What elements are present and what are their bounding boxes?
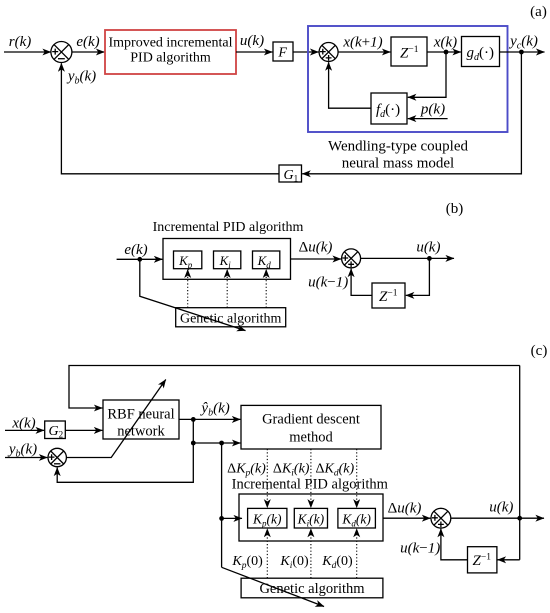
svg-text:Gradient descent: Gradient descent [262, 412, 360, 428]
wire yb-hat feedback to S4 [57, 443, 193, 482]
block Kp (b) [174, 251, 202, 270]
svg-text:u(k): u(k) [416, 240, 440, 256]
svg-text:x(k): x(k) [11, 416, 35, 432]
block Genetic algorithm (b) [176, 308, 286, 327]
svg-text:fd(·): fd(·) [376, 102, 400, 120]
wire diagonal to GA (c) [222, 567, 324, 606]
dotted wire gradient to Kp(k) [266, 449, 268, 508]
summer S1 [51, 42, 72, 63]
svg-text:Ki(k): Ki(k) [297, 512, 325, 529]
svg-text:e(k): e(k) [76, 34, 99, 50]
block Kd (b) [253, 251, 280, 270]
svg-text:Incremental PID algorithm: Incremental PID algorithm [232, 477, 389, 493]
wire p(k) to fd lower [408, 118, 448, 120]
block G1 [279, 165, 302, 184]
junction PID input (c) [219, 516, 224, 521]
junction u(k) (b) [427, 256, 432, 261]
block G2 [45, 421, 66, 440]
junction e(k) (b) [137, 257, 142, 262]
svg-text:Δu(k): Δu(k) [388, 501, 422, 517]
dotted wire GA to Kd (b) [265, 269, 267, 307]
block fd [371, 93, 407, 124]
wire fd to S2 [329, 62, 371, 108]
block Gradient descent method [241, 405, 381, 449]
wire branch down to PID input (c) [221, 443, 223, 567]
svg-text:Improved incremental: Improved incremental [108, 36, 232, 51]
junction lower branch [191, 441, 196, 446]
wire yc down to G1 [302, 52, 521, 174]
svg-text:p(k): p(k) [420, 102, 445, 118]
wire F to summer S2 [293, 51, 319, 53]
svg-text:u(k): u(k) [240, 33, 264, 49]
block Ki(k) [294, 508, 327, 528]
wire into PID box (c) [222, 517, 242, 519]
wire gd to output [500, 51, 545, 53]
svg-text:u(k−1): u(k−1) [308, 275, 348, 291]
svg-text:F: F [277, 46, 287, 61]
svg-text:r(k): r(k) [9, 34, 32, 50]
svg-text:Kd(0): Kd(0) [321, 554, 353, 571]
svg-text:e(k): e(k) [124, 242, 147, 258]
svg-text:Kp(0): Kp(0) [231, 554, 263, 571]
svg-text:u(k−1): u(k−1) [400, 541, 440, 557]
dotted wire gradient to Ki(k) [310, 449, 312, 508]
wire PID box to summer S3 [291, 258, 342, 260]
svg-text:gd(·): gd(·) [467, 45, 495, 63]
svg-text:Wendling-type coupled: Wendling-type coupled [328, 139, 469, 155]
dotted wire GA to Kp(k) (c) [266, 529, 268, 579]
box incremental PID (b) [163, 239, 291, 280]
wire r(k) to summer S1 [4, 51, 51, 53]
block RBF neural network [103, 400, 179, 440]
junction branch to PID [219, 441, 224, 446]
dotted wire GA to Kd(k) (c) [356, 529, 358, 579]
svg-text:method: method [289, 430, 333, 446]
dotted wire GA to Kp (b) [187, 269, 189, 307]
svg-text:(a): (a) [530, 4, 547, 20]
wire u(k) to Z1b [406, 258, 430, 295]
junction yb-hat [191, 417, 196, 422]
block Genetic algorithm (c) [241, 578, 383, 598]
wire S4 error diagonal through RBF [66, 380, 165, 458]
svg-text:u(k): u(k) [489, 500, 513, 516]
svg-text:Δu(k): Δu(k) [299, 240, 333, 256]
wire x(k) to G2 [5, 429, 44, 431]
svg-text:x(k): x(k) [433, 35, 457, 51]
svg-text:neural mass model: neural mass model [342, 156, 454, 172]
junction yc [519, 50, 524, 55]
svg-text:network: network [117, 424, 165, 440]
svg-text:yb(k): yb(k) [7, 442, 37, 460]
block Ki (b) [214, 251, 241, 270]
wire Z1b to S3 [351, 269, 372, 296]
block Kd(k) [338, 508, 376, 528]
dotted wire gradient to Kd(k) [356, 449, 358, 508]
block F [273, 42, 293, 61]
junction u(k) (c) [517, 516, 522, 521]
summer S4 [48, 448, 66, 466]
svg-text:yb(k): yb(k) [66, 69, 96, 87]
svg-text:Ki(0): Ki(0) [279, 554, 309, 571]
svg-text:Incremental PID algorithm: Incremental PID algorithm [153, 220, 304, 235]
wire S1 to PID box [72, 51, 105, 53]
wire u(k) down to Z1c [498, 559, 520, 561]
block Kp(k) [248, 508, 287, 528]
svg-text:(b): (b) [446, 201, 464, 217]
box Wendling model (blue frame) [308, 26, 508, 132]
dotted wire GA to Ki(k) (c) [310, 529, 312, 579]
wire e(k) diagonal through GA (b) [140, 259, 246, 330]
svg-text:Genetic algorithm: Genetic algorithm [259, 581, 365, 597]
wire Z1c to S5 [441, 529, 468, 560]
wire G2 to RBF [65, 429, 102, 431]
svg-text:x(k+1): x(k+1) [342, 35, 382, 51]
block gd [462, 37, 500, 67]
block Z^-1 (b) [372, 283, 405, 308]
box incremental PID (c) [239, 494, 383, 541]
svg-text:(c): (c) [531, 343, 548, 359]
wire branch to gradient box lower input [193, 442, 240, 444]
wire RBF to gradient box [179, 418, 240, 420]
svg-text:yc(k): yc(k) [508, 34, 538, 52]
summer S5 [431, 508, 451, 528]
block Z^-1 (a) [391, 37, 427, 66]
summer S2 [319, 43, 338, 62]
wire PID box to F [236, 51, 272, 53]
wire PID box to summer S5 [383, 517, 430, 519]
wire e(k) into PID box (b) [117, 258, 163, 260]
junction x(k) [444, 50, 449, 55]
block Improved incremental PID algorithm [105, 30, 236, 74]
block Z^-1 (c) [468, 547, 497, 573]
wire S5 to output (c) [451, 517, 544, 519]
wire S2 to Z1a [338, 51, 390, 53]
wire yb-hat branch down [192, 419, 194, 443]
wire u(k) feedback to RBF [69, 366, 520, 409]
wire S3 to output (b) [361, 257, 454, 259]
svg-text:Kp(k): Kp(k) [252, 512, 282, 529]
summer S3 [342, 249, 361, 268]
wire G1 to S1 [61, 63, 279, 174]
wire x(k) to fd upper [408, 52, 446, 97]
svg-text:ŷb(k): ŷb(k) [199, 401, 229, 419]
dotted wire GA to Ki (b) [226, 269, 228, 307]
wire yb(k) to summer S4 [5, 457, 47, 459]
wire u(k) vertical (c) [519, 366, 521, 560]
wire Z1a to gd [427, 51, 461, 53]
svg-text:PID algorithm: PID algorithm [130, 51, 211, 66]
svg-text:Kd(k): Kd(k) [341, 512, 371, 529]
